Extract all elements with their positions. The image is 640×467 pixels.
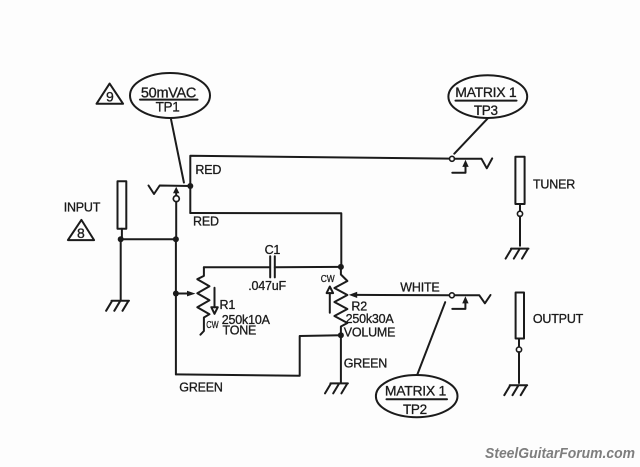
node junction R2 bottom [338, 332, 344, 338]
svg-text:MATRIX 1: MATRIX 1 [455, 84, 517, 100]
TP1 pointer line [171, 118, 184, 182]
TP2 pointer line [417, 302, 445, 374]
wire R1 top to C1 [204, 266, 269, 268]
svg-text:CW: CW [206, 319, 219, 330]
R2 wiper arrow (WHITE) [349, 292, 450, 298]
svg-text:TUNER: TUNER [533, 178, 575, 192]
ground (input) [106, 301, 129, 311]
test point TP3 balloon [448, 75, 527, 118]
input jack ring contact (arrow + circle) [173, 187, 179, 239]
svg-text:RED: RED [195, 163, 221, 177]
ground (tuner) [506, 249, 529, 259]
svg-text:250k30A: 250k30A [346, 312, 395, 326]
svg-text:8: 8 [77, 225, 85, 241]
tuner jack body [515, 157, 524, 204]
wire jack sleeve lead [121, 229, 123, 240]
svg-text:TONE: TONE [223, 323, 257, 337]
svg-text:OUTPUT: OUTPUT [533, 312, 584, 326]
flag note 8 triangle [68, 220, 94, 241]
wire sleeve to ring bus [121, 238, 176, 240]
wire C1 to R2 top [275, 266, 341, 268]
test point TP2 balloon [376, 375, 458, 417]
output jack test point circle [449, 293, 454, 298]
output jack body [516, 293, 524, 339]
capacitor C1 [270, 256, 275, 277]
resistor R1 (tone pot) [197, 267, 209, 335]
svg-text:TP1: TP1 [156, 100, 180, 115]
wire to input ground [120, 239, 122, 300]
R1 wiper arrow [176, 291, 196, 297]
tuner jack tip contact (V hook) [455, 158, 493, 168]
svg-text:SteelGuitarForum.com: SteelGuitarForum.com [485, 446, 635, 462]
wire RED bottom run [190, 213, 341, 265]
node junction at input jack tip [187, 183, 193, 189]
wire RED top run [190, 156, 450, 213]
output jack sleeve pin [516, 339, 521, 384]
input jack tip contact (V hook) [149, 186, 191, 195]
resistor R2 (volume pot) [334, 267, 347, 335]
svg-text:GREEN: GREEN [344, 356, 388, 370]
flag note 9 triangle [97, 84, 124, 105]
ground (R2 bottom) [325, 383, 348, 393]
svg-text:R1: R1 [220, 298, 236, 312]
svg-text:INPUT: INPUT [64, 200, 101, 214]
svg-text:MATRIX 1: MATRIX 1 [385, 382, 447, 398]
ground (output) [504, 385, 527, 395]
test point TP1 balloon [130, 73, 210, 118]
node junction sleeve [118, 236, 124, 242]
output jack tip contact (V hook) [454, 295, 490, 303]
node junction wiper feed [173, 291, 179, 297]
R2 CW direction arrow [327, 287, 334, 313]
svg-text:C1: C1 [265, 243, 281, 257]
node junction ring bus [173, 236, 179, 242]
wire R2 bottom to ground [340, 335, 342, 382]
tuner jack sleeve pin [517, 204, 522, 246]
input jack J1 body [118, 181, 127, 228]
svg-text:.047uF: .047uF [248, 279, 286, 293]
svg-text:TP2: TP2 [403, 402, 427, 417]
svg-text:RED: RED [193, 215, 219, 229]
svg-text:VOLUME: VOLUME [344, 326, 396, 340]
svg-text:TP3: TP3 [474, 103, 498, 118]
svg-text:9: 9 [106, 89, 114, 105]
svg-text:WHITE: WHITE [400, 280, 439, 294]
node junction R2 top [338, 264, 344, 270]
svg-text:CW: CW [321, 273, 335, 284]
tuner jack shunt contact arrow [452, 160, 468, 173]
TP3 pointer line [454, 118, 488, 153]
output jack shunt contact arrow [452, 296, 468, 309]
svg-text:GREEN: GREEN [179, 381, 223, 395]
tuner jack test point circle [450, 156, 455, 161]
R1 CW direction arrow [211, 288, 218, 314]
wire GREEN bottom run [176, 335, 341, 375]
wire ring bus down to wiper node [175, 239, 177, 374]
